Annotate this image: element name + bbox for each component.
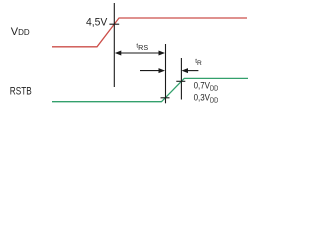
svg-text:tR: tR [195,58,202,67]
svg-text:VDD: VDD [11,26,30,38]
svg-text:RSTB: RSTB [10,86,32,99]
svg-text:tRS: tRS [136,42,148,52]
svg-text:4,5V: 4,5V [86,16,108,29]
